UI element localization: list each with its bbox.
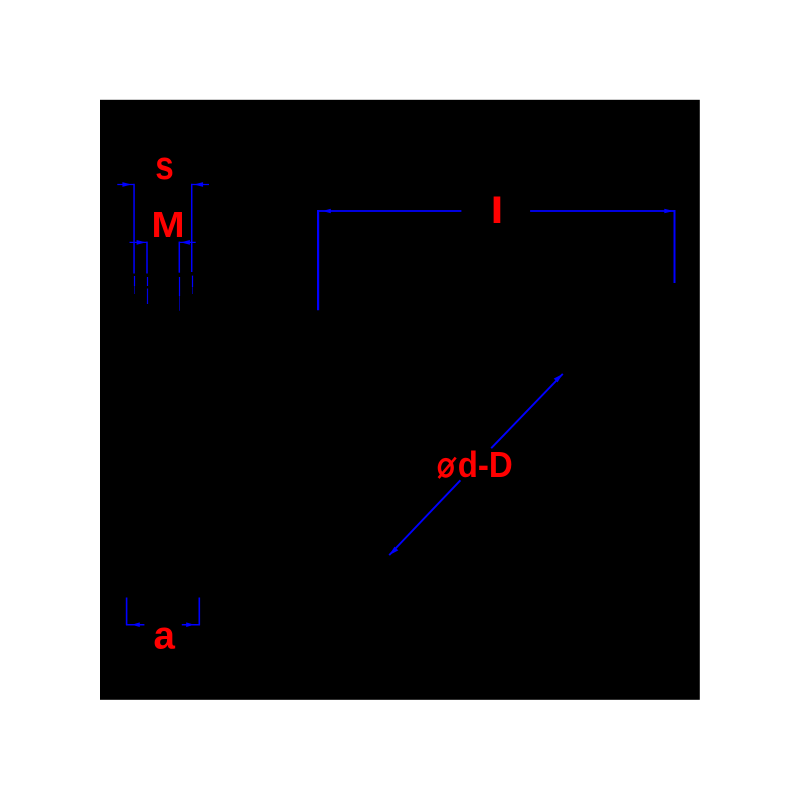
dimension l: right extension line <box>674 210 676 283</box>
dimension M: left extension line <box>146 242 149 304</box>
label d-D: diameter symbol (circle with slash) <box>439 458 456 478</box>
dimension s: right extension line <box>191 184 194 294</box>
dimension s: left dimension line with arrow <box>117 182 134 187</box>
dimension M: right dimension line with arrow <box>179 240 196 245</box>
dimension a: right extension line <box>198 598 200 626</box>
dimension M: left dimension line with arrow <box>130 240 148 245</box>
dimension a: right dimension line with arrow <box>182 622 200 627</box>
dimension l: dimension line right part with arrow <box>530 209 674 213</box>
svg-text:M: M <box>151 204 184 245</box>
svg-text:l: l <box>490 190 504 231</box>
diameter leader d-D: lower segment with arrow <box>389 480 460 555</box>
svg-text:d-D: d-D <box>458 444 513 485</box>
dimension l: left extension line <box>317 210 319 310</box>
svg-text:a: a <box>153 615 175 658</box>
black drawing box <box>100 100 700 700</box>
dimension a: left extension line <box>126 598 128 626</box>
dimension a: left dimension line with arrow <box>126 622 144 627</box>
svg-text:s: s <box>155 144 174 188</box>
dimension M: right extension line <box>178 242 180 311</box>
diameter leader d-D: upper segment with arrow <box>491 374 563 448</box>
dimension l: dimension line left part with arrow <box>318 209 461 213</box>
dimension s: right dimension line with arrow <box>191 182 209 187</box>
dimension s: left extension line <box>133 184 135 294</box>
